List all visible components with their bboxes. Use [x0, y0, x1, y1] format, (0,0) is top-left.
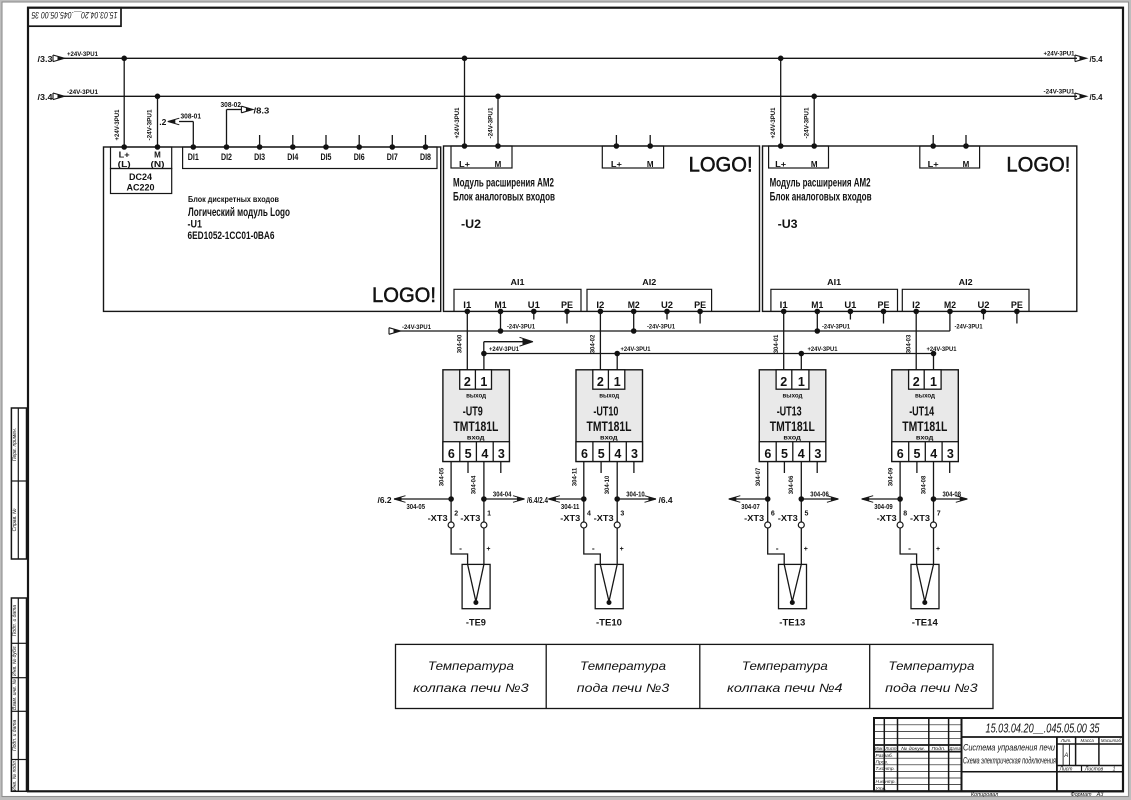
wire label +24V-3PU1 vertical U2: [454, 107, 461, 138]
U2 AI1 input group box: [454, 277, 581, 311]
wire AI input to -UT10 terminal 2 (304-02): [599, 311, 601, 369]
svg-text:Н.контр.: Н.контр.: [876, 779, 896, 785]
wire DI1 reference 308-01: [159, 111, 201, 147]
svg-text:Пров.: Пров.: [876, 759, 889, 765]
wire stub U2 AI1 PE: [566, 311, 568, 323]
wire label 304-05 vertical: [439, 467, 446, 486]
svg-text:3: 3: [947, 447, 954, 461]
svg-text:-: -: [908, 543, 911, 553]
svg-text:+: +: [486, 546, 490, 553]
svg-text:Подп. и дата: Подп. и дата: [12, 605, 18, 637]
svg-text:DI2: DI2: [221, 152, 232, 163]
svg-text:TMT181L: TMT181L: [587, 418, 632, 434]
svg-text:-UT14: -UT14: [909, 404, 935, 419]
svg-text:Схема электрическая подключени: Схема электрическая подключения: [963, 756, 1056, 766]
wire -UT10 terminal 6 down (304-11): [581, 462, 587, 523]
svg-text:8: 8: [903, 511, 907, 518]
wire M to -24V bus junction: [498, 311, 504, 333]
svg-text:+24V-3PU1: +24V-3PU1: [770, 107, 777, 138]
svg-text:вход: вход: [916, 434, 934, 441]
wire label 304-01 vertical: [773, 334, 780, 353]
svg-text:Копировал: Копировал: [971, 792, 998, 798]
title block: [874, 718, 1123, 791]
wire stub U3 AI2 PE: [1016, 311, 1018, 323]
svg-text:7: 7: [937, 511, 941, 518]
wire thermocouple plus lead: [934, 528, 941, 564]
table cell text 3: [727, 659, 843, 695]
svg-text:-: -: [776, 543, 779, 553]
svg-text:-24V-3PU1: -24V-3PU1: [507, 324, 535, 331]
U3 terminal AI1.M1: [811, 300, 824, 314]
U3 LOGO! wordmark: [1006, 154, 1070, 177]
svg-text:LOGO!: LOGO!: [372, 284, 436, 307]
label +24V-3PU1: [927, 346, 957, 353]
svg-text:(N): (N): [151, 160, 165, 169]
wire +24V bus to -UT10 terminal 1: [614, 351, 620, 370]
svg-text:Изм.: Изм.: [875, 746, 884, 751]
U2 terminal AI1.M1: [495, 300, 508, 314]
svg-text:DI6: DI6: [354, 152, 365, 163]
svg-text:вход: вход: [783, 434, 801, 441]
svg-text:Подп.: Подп.: [932, 746, 946, 751]
U3 L+/M terminal box 2 (unconnected): [920, 135, 980, 169]
U2 description text: [453, 178, 555, 231]
svg-text:304-06: 304-06: [788, 475, 795, 494]
svg-text:-U1: -U1: [188, 219, 203, 231]
wire label +24V-3PU1 vertical U3: [770, 107, 777, 138]
terminal -XT3:6: [744, 511, 775, 529]
wire thermocouple plus lead: [801, 528, 808, 564]
left margin stamp group lower: [11, 598, 26, 791]
wire 304-10 right reference arrow: [617, 490, 673, 506]
svg-text:DI4: DI4: [287, 152, 299, 163]
svg-text:6: 6: [897, 447, 904, 461]
temperature transmitter -UT10 TMT181L: [576, 370, 643, 462]
svg-text:M: M: [647, 160, 654, 169]
svg-text:TMT181L: TMT181L: [770, 418, 815, 434]
wire thermocouple minus lead: [768, 528, 785, 564]
wire bus +24V-3PU1 mid: [484, 353, 934, 355]
U3 terminal AI1.U1: [844, 300, 857, 314]
svg-text:304-07: 304-07: [741, 502, 760, 511]
svg-text:пода печи №3: пода печи №3: [885, 681, 978, 695]
svg-text:(L): (L): [118, 160, 131, 169]
top-left stamp box with rotated doc number: [28, 8, 121, 27]
wire -UT14 terminal 4 down (304-08): [931, 462, 937, 523]
svg-text:3: 3: [631, 447, 638, 461]
svg-text:выход: выход: [783, 392, 803, 399]
svg-text:выход: выход: [915, 392, 935, 399]
svg-text:А: А: [1063, 753, 1068, 759]
label +24V-3PU1: [808, 346, 838, 353]
terminal -XT3:7: [910, 511, 941, 529]
left margin stamp group upper: [11, 408, 26, 559]
U1 terminal DI8: [420, 144, 431, 163]
svg-text:308-02: 308-02: [221, 100, 242, 109]
wire 304-08 right reference arrow: [934, 490, 968, 503]
svg-text:-24V-3PU1: -24V-3PU1: [67, 89, 98, 96]
U1 terminal DI4: [287, 144, 299, 163]
svg-text:пода печи №3: пода печи №3: [577, 681, 670, 695]
temperature transmitter -UT14 TMT181L: [892, 370, 959, 462]
svg-text:L+: L+: [119, 151, 130, 160]
svg-text:Листов: Листов: [1084, 766, 1104, 772]
temperature transmitter -UT13 TMT181L: [759, 370, 826, 462]
svg-text:304-06: 304-06: [810, 490, 829, 499]
U1 terminal DI5: [321, 144, 333, 163]
table cell text 1: [413, 659, 529, 695]
svg-text:DI1: DI1: [188, 152, 200, 163]
svg-text:2: 2: [464, 375, 471, 389]
svg-text:+24V-3PU1: +24V-3PU1: [808, 346, 838, 353]
wire thermocouple minus lead: [900, 528, 917, 564]
svg-text:2: 2: [454, 511, 458, 518]
svg-text:-TE13: -TE13: [779, 617, 805, 628]
wire -UT10 terminal 4 down (304-10): [614, 462, 620, 523]
svg-text:-: -: [459, 543, 462, 553]
svg-text:5: 5: [914, 447, 921, 461]
wire -UT13 terminal 5 stub: [783, 462, 785, 474]
label -24V-3PU1: [507, 324, 535, 331]
wire stub U2 U2: [666, 311, 668, 319]
svg-text:DC24: DC24: [129, 172, 152, 182]
wire 304-04 right reference arrow: [484, 490, 548, 506]
wire -UT9 terminal 4 down (304-04): [481, 462, 487, 523]
bottom captions: [971, 792, 1104, 798]
U1 description text: [188, 194, 291, 242]
U2 terminal AI2.U2: [661, 300, 673, 314]
wire stub DI7: [391, 135, 393, 147]
svg-text:Логический модуль Logo: Логический модуль Logo: [188, 205, 290, 219]
svg-text:M: M: [154, 151, 161, 160]
title block name: [963, 743, 1056, 766]
wire -UT9 terminal 5 stub: [467, 462, 469, 474]
svg-text:15.03.04.20__.045.05.00 35: 15.03.04.20__.045.05.00 35: [31, 10, 118, 20]
svg-text:-24V-3PU1: -24V-3PU1: [488, 107, 495, 138]
svg-text:Температура: Температура: [888, 659, 974, 673]
svg-text:колпака печи №3: колпака печи №3: [413, 681, 529, 695]
svg-text:AC220: AC220: [127, 182, 155, 192]
wire stub U3 AI1 PE: [883, 311, 885, 323]
wire bus -24V-3PU1 top: [38, 89, 1103, 103]
wire 304-09 left reference arrow: [862, 496, 900, 511]
svg-text:Дата: Дата: [949, 746, 961, 751]
svg-text:Модуль расширения АМ2: Модуль расширения АМ2: [453, 178, 554, 190]
svg-text:1: 1: [930, 375, 937, 389]
U2 L+/M terminal box 1: [451, 143, 512, 169]
U3 AI2 input group box: [902, 277, 1029, 311]
thermocouple -TE9: [462, 564, 490, 628]
svg-text:304-10: 304-10: [604, 475, 611, 494]
U1 terminal DI1: [188, 144, 200, 163]
svg-text:DI7: DI7: [387, 152, 398, 163]
terminal -XT3:8: [877, 511, 908, 529]
table cell text 2: [577, 659, 670, 695]
label -24V-3PU1 last: [955, 324, 983, 331]
svg-text:304-04: 304-04: [493, 490, 512, 499]
svg-text:/5.4: /5.4: [1090, 92, 1103, 102]
svg-text:Инв. № дубл.: Инв. № дубл.: [12, 645, 18, 676]
svg-text:304-00: 304-00: [457, 334, 464, 353]
svg-text:вход: вход: [467, 434, 485, 441]
svg-text:+24V-3PU1: +24V-3PU1: [927, 346, 957, 353]
wire 304-07 left reference arrow: [729, 496, 768, 511]
svg-text:304-11: 304-11: [561, 502, 580, 511]
svg-text:№ докум.: № докум.: [901, 746, 925, 751]
svg-text:4: 4: [614, 447, 621, 461]
U2 LOGO! wordmark: [689, 154, 753, 177]
svg-text:/5.4: /5.4: [1090, 54, 1103, 64]
svg-text:LOGO!: LOGO!: [1006, 154, 1070, 177]
wire -UT9 terminal 6 down (304-05): [448, 462, 454, 523]
svg-text:+: +: [936, 546, 940, 553]
svg-text:Масса: Масса: [1081, 738, 1095, 743]
svg-text:-24V-3PU1: -24V-3PU1: [804, 107, 811, 138]
wire U3 L+ to +24V bus: [778, 56, 784, 147]
U3 L+/M terminal box 1: [769, 143, 829, 169]
svg-text:304-04: 304-04: [471, 475, 478, 494]
svg-text:-UT13: -UT13: [777, 404, 802, 419]
svg-text:3: 3: [814, 447, 821, 461]
U1 terminal DI7: [387, 144, 398, 163]
description table: [396, 644, 994, 708]
wire -UT14 terminal 5 stub: [916, 462, 918, 474]
svg-text:5: 5: [805, 511, 809, 518]
svg-text:-24V-3PU1: -24V-3PU1: [822, 324, 850, 331]
svg-text:L+: L+: [775, 160, 786, 169]
wire thermocouple minus lead: [451, 528, 468, 564]
terminal -XT3:2: [428, 511, 459, 529]
svg-text:TMT181L: TMT181L: [453, 418, 498, 434]
svg-text:1: 1: [798, 375, 805, 389]
wire stub U3 U2: [983, 311, 985, 319]
wire stub DI8: [425, 135, 427, 147]
svg-text:DI8: DI8: [420, 152, 431, 163]
svg-text:6: 6: [581, 447, 588, 461]
svg-text:5: 5: [781, 447, 788, 461]
logic module U1 box: [104, 147, 441, 311]
U1 terminal DI3: [254, 144, 265, 163]
svg-text:Перв. примен.: Перв. примен.: [12, 428, 18, 461]
svg-text:-XT3: -XT3: [428, 513, 448, 523]
wire label 304-02 vertical: [590, 334, 597, 353]
wire label 304-00 vertical: [457, 334, 464, 353]
wire label -24V-3PU1 vertical U2: [488, 107, 495, 138]
U3 AI1 input group box: [771, 277, 898, 311]
U2 terminal AI1.PE: [561, 300, 573, 314]
svg-text:-XT3: -XT3: [877, 513, 897, 523]
svg-text:выход: выход: [599, 392, 619, 399]
wire -UT14 terminal 6 down (304-09): [897, 462, 903, 523]
expansion module U3 box: [763, 146, 1077, 311]
wire 304-05 left reference arrow: [378, 495, 452, 511]
svg-text:AI2: AI2: [642, 277, 656, 287]
svg-text:AI1: AI1: [511, 277, 525, 287]
svg-text:2: 2: [597, 375, 604, 389]
svg-text:304-02: 304-02: [590, 334, 597, 353]
svg-text:TMT181L: TMT181L: [902, 418, 947, 434]
wire stub DI5: [325, 135, 327, 147]
wire +24V bus to -UT9 terminal 1: [481, 351, 487, 370]
svg-text:304-07: 304-07: [755, 467, 762, 486]
wire label +24V-3PU1 vertical U1: [114, 109, 121, 140]
U2 terminal AI2.PE: [694, 300, 706, 314]
svg-text:2: 2: [780, 375, 787, 389]
wire M to -24V bus junction: [631, 311, 637, 333]
label +24V-3PU1: [489, 346, 519, 353]
svg-text:1: 1: [487, 511, 491, 518]
wire label 304-04 vertical: [471, 475, 478, 494]
svg-text:304-03: 304-03: [905, 334, 912, 353]
wire -UT13 terminal 3 stub: [816, 462, 818, 474]
svg-text:+24V-3PU1: +24V-3PU1: [454, 107, 461, 138]
svg-text:Лист: Лист: [884, 746, 896, 751]
svg-text:Температура: Температура: [428, 659, 514, 673]
svg-text:/8.3: /8.3: [254, 106, 270, 116]
wire label 304-07 vertical: [755, 467, 762, 486]
U2 terminal AI2.I2: [596, 300, 604, 314]
svg-text:308-01: 308-01: [181, 111, 202, 120]
svg-text:L+: L+: [459, 160, 470, 169]
svg-text:6: 6: [771, 511, 775, 518]
svg-text:304-10: 304-10: [626, 490, 645, 499]
svg-text:+24V-3PU1: +24V-3PU1: [1044, 51, 1075, 58]
thermocouple -TE10: [595, 564, 623, 628]
svg-text:/6.4: /6.4: [659, 495, 673, 505]
wire thermocouple minus lead: [584, 528, 601, 564]
wire bus -24V-3PU1 mid: [389, 311, 950, 334]
svg-text:-XT3: -XT3: [778, 513, 798, 523]
terminal -XT3:4: [560, 511, 591, 529]
U3 description text: [770, 178, 872, 231]
U3 terminal AI1.PE: [878, 300, 890, 314]
U1 LOGO! wordmark: [372, 284, 436, 307]
svg-text:Лист: Лист: [1059, 766, 1073, 772]
expansion module U2 box: [444, 146, 760, 311]
svg-text:M: M: [811, 160, 818, 169]
svg-text:колпака печи №4: колпака печи №4: [727, 681, 843, 695]
U3 terminal AI2.U2: [978, 300, 990, 314]
wire label 304-03 vertical: [905, 334, 912, 353]
wire U3 M to -24V bus: [811, 94, 817, 147]
svg-text:-XT3: -XT3: [460, 513, 480, 523]
svg-text:15.03.04.20__.045.05.00 35: 15.03.04.20__.045.05.00 35: [986, 722, 1100, 736]
wire label 304-10 vertical: [604, 475, 611, 494]
svg-text:-U2: -U2: [461, 217, 481, 231]
wire label 304-09 vertical: [888, 467, 895, 486]
svg-text:-XT3: -XT3: [594, 513, 614, 523]
+24V feed arrow stub: [484, 337, 533, 353]
label -24V-3PU1: [647, 324, 675, 331]
wire label 304-06 vertical: [788, 475, 795, 494]
svg-text:вход: вход: [600, 434, 618, 441]
svg-text:-24V-3PU1: -24V-3PU1: [955, 324, 983, 331]
svg-text:Лит.: Лит.: [1060, 738, 1072, 743]
svg-text:-U3: -U3: [778, 217, 798, 231]
svg-text:5: 5: [465, 447, 472, 461]
thermocouple -TE13: [779, 564, 807, 628]
wire -UT13 terminal 4 down (304-06): [799, 462, 805, 523]
svg-text:-: -: [592, 543, 595, 553]
svg-text:1: 1: [480, 375, 487, 389]
svg-text:M: M: [963, 160, 970, 169]
U3 terminal AI2.I2: [912, 300, 920, 314]
svg-text:Подп. и дата: Подп. и дата: [12, 720, 18, 752]
svg-text:-TE10: -TE10: [596, 617, 622, 628]
wire stub DI4: [292, 135, 294, 147]
svg-text:1: 1: [614, 375, 621, 389]
wire -UT9 terminal 3 stub: [500, 462, 502, 474]
wire U1 L+ to +24V bus: [121, 56, 127, 150]
svg-text:Блок аналоговых входов: Блок аналоговых входов: [453, 191, 555, 203]
svg-text:304-01: 304-01: [773, 334, 780, 353]
svg-text:+24V-3PU1: +24V-3PU1: [114, 109, 121, 140]
svg-text:Утв.: Утв.: [876, 786, 887, 792]
svg-text:+: +: [804, 546, 808, 553]
svg-text:Т.контр.: Т.контр.: [876, 766, 895, 772]
svg-text:.2: .2: [159, 117, 166, 127]
svg-text:4: 4: [930, 447, 937, 461]
svg-text:-UT10: -UT10: [593, 404, 618, 419]
svg-text:/3.4: /3.4: [38, 92, 53, 102]
svg-text:5: 5: [598, 447, 605, 461]
wire label 304-08 vertical: [920, 475, 927, 494]
svg-text:M: M: [495, 160, 502, 169]
svg-text:Температура: Температура: [742, 659, 828, 673]
svg-text:Справ. №: Справ. №: [12, 508, 18, 531]
wire label -24V-3PU1 vertical U1: [147, 109, 154, 140]
label -24V-3PU1: [822, 324, 850, 331]
U2 L+/M terminal box 2 (unconnected): [602, 135, 663, 169]
terminal -XT3:5: [778, 511, 809, 529]
svg-text:4: 4: [481, 447, 488, 461]
U1 DI terminal box: [183, 147, 437, 169]
svg-text:L+: L+: [928, 160, 939, 169]
svg-text:-24V-3PU1: -24V-3PU1: [647, 324, 675, 331]
svg-text:AI1: AI1: [827, 277, 841, 287]
wire +24V bus to -UT14 terminal 1: [931, 351, 937, 370]
U3 terminal AI2.M2: [944, 300, 956, 314]
U2 terminal AI2.M2: [628, 300, 640, 314]
wire -UT13 terminal 6 down (304-07): [765, 462, 771, 523]
wire stub U2 AI2 PE: [699, 311, 701, 323]
thermocouple -TE14: [911, 564, 939, 628]
svg-text:-UT9: -UT9: [463, 404, 483, 419]
svg-text:4: 4: [587, 511, 591, 518]
svg-text:-24V-3PU1: -24V-3PU1: [147, 109, 154, 140]
svg-text:Система управления печи: Система управления печи: [963, 743, 1055, 753]
svg-text:DI5: DI5: [321, 152, 333, 163]
wire label 304-11 vertical: [571, 467, 578, 486]
svg-text:304-05: 304-05: [439, 467, 446, 486]
wire DI2 reference 308-02 to /8.3: [221, 100, 270, 147]
svg-text:Блок дискретных входов: Блок дискретных входов: [188, 194, 279, 204]
svg-text:3: 3: [498, 447, 505, 461]
temperature transmitter -UT9 TMT181L: [443, 370, 510, 462]
wire U2 L+ to +24V bus: [462, 56, 468, 147]
terminal -XT3:1: [460, 511, 491, 529]
table cell text 4: [885, 659, 978, 695]
svg-text:-XT3: -XT3: [910, 513, 930, 523]
svg-text:Формат: Формат: [1071, 792, 1092, 798]
svg-text:+: +: [620, 546, 624, 553]
svg-text:6: 6: [448, 447, 455, 461]
U1 L+/M terminal box: [111, 147, 172, 169]
wire M to -24V bus junction: [815, 311, 821, 333]
svg-text:/6.2: /6.2: [378, 495, 392, 505]
svg-text:304-05: 304-05: [407, 502, 426, 511]
wire stub DI3: [259, 135, 261, 147]
